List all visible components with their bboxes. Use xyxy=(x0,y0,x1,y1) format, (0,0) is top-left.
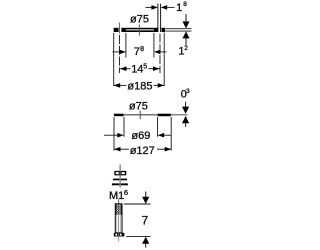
left bolt-hole centerline xyxy=(119,23,121,74)
washer lower xyxy=(112,183,128,185)
seal centerline tick xyxy=(139,111,141,120)
label 7.8 xyxy=(134,46,144,58)
extension line window left edge xyxy=(125,33,127,58)
label 0.3 xyxy=(181,88,190,100)
seal extension line to 0.3 dimension xyxy=(171,114,188,116)
label 1.8 xyxy=(176,1,187,14)
dimension ø127 (seal outer diameter) line and arrowheads xyxy=(114,147,171,152)
seal ring left section xyxy=(114,114,124,117)
label M16 thread xyxy=(109,188,128,202)
svg-text:ø75: ø75 xyxy=(130,14,149,26)
screw centerline below head xyxy=(118,233,120,242)
svg-text:7: 7 xyxy=(134,46,140,58)
extension line plate left edge xyxy=(113,33,115,86)
label 14.5 xyxy=(131,63,147,75)
dimension 14.5 (hole spacing) line and arrowheads xyxy=(120,66,160,71)
stud pin lines on plate xyxy=(158,4,161,32)
dimension 1.2 (plate thickness) arrows and extension lines xyxy=(166,14,192,46)
label 1.2 xyxy=(178,45,188,58)
dimension 1.8 (pin width) leader lines xyxy=(146,6,175,8)
svg-text:7: 7 xyxy=(142,213,149,227)
svg-text:1: 1 xyxy=(176,2,182,14)
dimension 7 (screw length) extension lines and arrows xyxy=(124,192,151,248)
extension line seal outer right xyxy=(170,117,172,151)
svg-text:ø75: ø75 xyxy=(129,100,148,112)
svg-text:5: 5 xyxy=(143,64,147,71)
extension line seal inner left xyxy=(123,117,125,137)
svg-text:14: 14 xyxy=(131,63,143,75)
seal ring right section xyxy=(158,114,171,117)
dimension 7.8 (window width) leaders and arrowheads xyxy=(113,50,167,55)
plate centerline tick xyxy=(138,25,140,36)
dimension 0.3 (seal thickness) arrows xyxy=(182,102,189,127)
svg-text:2: 2 xyxy=(184,45,188,52)
fastener centerline xyxy=(119,165,121,188)
svg-text:8: 8 xyxy=(140,46,144,53)
svg-text:M1: M1 xyxy=(109,190,124,202)
svg-text:6: 6 xyxy=(124,188,128,197)
svg-text:ø185: ø185 xyxy=(127,80,152,92)
svg-text:ø127: ø127 xyxy=(130,145,155,157)
extension line window right edge xyxy=(153,33,155,58)
extension line seal outer left xyxy=(113,117,115,151)
cover plate (section, ø185 wide) with bolt-hole slots and ø75 window xyxy=(114,28,166,32)
svg-text:3: 3 xyxy=(186,88,190,95)
wing nut xyxy=(114,171,126,176)
dimension 1.8 arrowheads xyxy=(151,5,167,10)
dimension ø69 (seal bore) leaders and arrowheads xyxy=(104,133,172,138)
dimension ø185 (plate diameter) line and arrowheads xyxy=(114,83,165,88)
right stud centerline xyxy=(159,34,161,74)
svg-text:ø69: ø69 xyxy=(131,130,150,142)
seal far-side line xyxy=(124,114,158,116)
screw head xyxy=(114,233,125,237)
washer upper xyxy=(113,179,127,181)
extension line plate right edge xyxy=(163,33,165,87)
extension line seal inner right xyxy=(157,117,159,137)
svg-text:8: 8 xyxy=(183,1,187,8)
screw shank with threaded top xyxy=(115,198,122,233)
